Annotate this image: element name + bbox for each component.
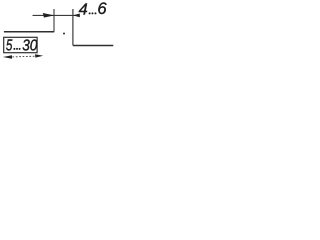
right plate top edge <box>73 45 113 47</box>
left plate top edge <box>4 31 54 33</box>
arrowhead left (points right, tip at left extension line) <box>43 13 55 18</box>
svg-text:6: 6 <box>97 0 107 18</box>
svg-text:5: 5 <box>6 37 13 54</box>
extension line right <box>72 9 74 45</box>
svg-text:4: 4 <box>79 2 88 19</box>
arrowhead right of double arrow (points right) <box>35 54 43 57</box>
box around 5...30 <box>4 37 37 52</box>
arrowhead right (points left, tip at right extension line) <box>73 14 80 18</box>
arrowhead left of double arrow (points left) <box>3 55 12 59</box>
double arrow line under box <box>9 55 35 58</box>
dimension line (4...6) <box>33 14 80 16</box>
extension line left <box>53 9 55 32</box>
svg-text:30: 30 <box>22 37 37 54</box>
ink dot (scan speck) <box>63 33 65 35</box>
